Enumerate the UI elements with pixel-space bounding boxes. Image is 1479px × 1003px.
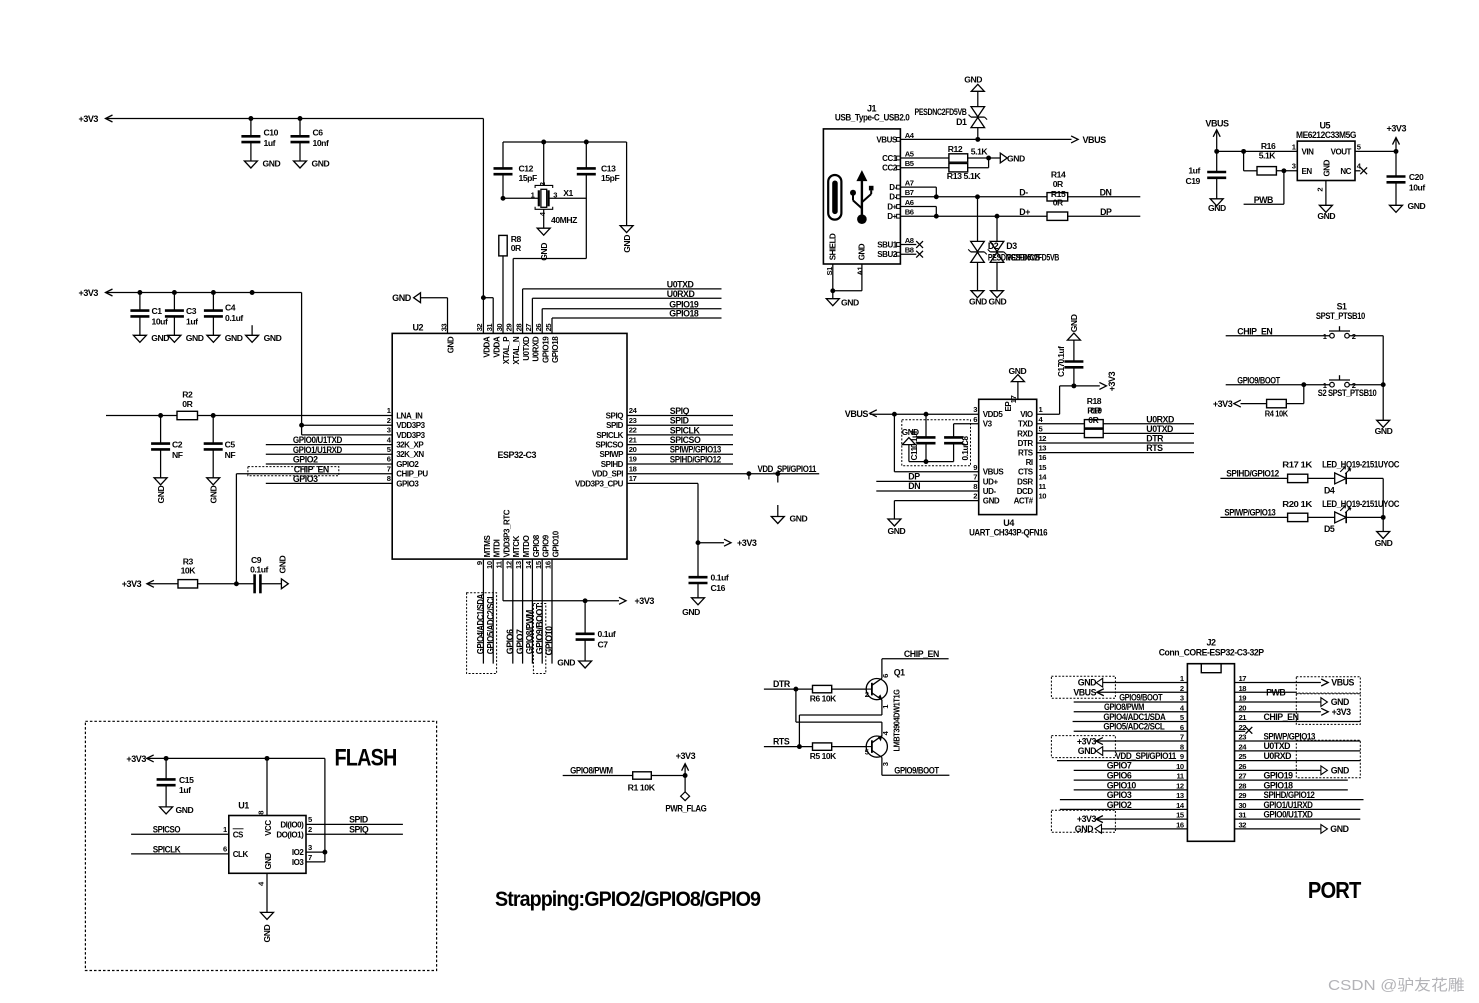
J1 SHIELD pin label — [828, 233, 837, 260]
svg-text:1uf: 1uf — [179, 785, 191, 795]
U4 pin 17 EP — [1004, 382, 1018, 412]
power label +3V3 (J2 pin20) — [1235, 707, 1352, 717]
capacitor C12 15pF — [494, 142, 537, 198]
wire +3V3 rail to U2 VDD3P3 — [106, 293, 302, 435]
svg-text:3: 3 — [881, 762, 890, 766]
USB type-c icon — [828, 175, 841, 220]
svg-text:VDD3P3_RTC: VDD3P3_RTC — [502, 509, 511, 557]
svg-text:GPIO9/BOOT: GPIO9/BOOT — [1237, 375, 1280, 385]
J2 pin 13 — [1176, 791, 1184, 800]
U2 pin 10 MTDI — [485, 539, 502, 569]
svg-text:2: 2 — [865, 690, 869, 699]
capacitor C10 1uf — [241, 119, 278, 162]
svg-text:13: 13 — [1176, 791, 1184, 800]
wire V3 to C8 — [954, 424, 979, 438]
wire VBUS down to pin9 — [894, 414, 978, 472]
capacitor C17 0.1uf — [1057, 340, 1084, 386]
U4 value label UART_CH343P-QFN16 — [969, 527, 1047, 537]
J1 pin A6 D+ — [887, 198, 913, 212]
wire LNA_IN — [106, 415, 392, 417]
svg-text:U0RXD: U0RXD — [532, 336, 541, 362]
svg-text:B5: B5 — [905, 159, 915, 168]
svg-text:C12: C12 — [519, 163, 534, 173]
svg-text:7: 7 — [1180, 733, 1184, 742]
connector J2 Conn_CORE-ESP32-C3-32P body — [1187, 664, 1234, 842]
svg-text:11: 11 — [1039, 482, 1047, 491]
wire U1 IO3 pullup — [306, 861, 325, 863]
U2 pin 21 SPICSO — [595, 435, 637, 449]
U5 pin 1 VIN — [1292, 142, 1314, 156]
svg-text:7: 7 — [387, 464, 391, 473]
J2 pin 7 — [1180, 733, 1184, 742]
junction — [158, 413, 215, 418]
wire net GPIO7 (J2 pin10) — [1074, 761, 1188, 771]
J1 pin A8 SBU1 — [877, 236, 913, 250]
svg-text:NF: NF — [172, 450, 183, 460]
U2 value label ESP32-C3 — [498, 450, 537, 460]
svg-text:19: 19 — [1239, 694, 1247, 703]
svg-text:2: 2 — [1315, 188, 1324, 192]
svg-text:GND: GND — [262, 925, 272, 943]
svg-text:SPIWP/GPIO13: SPIWP/GPIO13 — [1224, 507, 1275, 517]
svg-text:GPIO6: GPIO6 — [505, 629, 515, 654]
svg-text:VDD3P3_CPU: VDD3P3_CPU — [575, 479, 624, 488]
svg-text:ACT#: ACT# — [1014, 497, 1034, 506]
J1 SBU2 stub — [900, 251, 923, 258]
svg-text:IO3: IO3 — [292, 858, 305, 867]
svg-text:NC: NC — [1340, 167, 1351, 176]
J2 pin 28 — [1239, 781, 1247, 790]
wire net GPIO10 (J2 pin12) — [1074, 780, 1188, 790]
U4 pin 7 UD+ — [973, 472, 998, 486]
svg-text:13: 13 — [1039, 444, 1047, 453]
junction — [830, 288, 835, 293]
U2 pin 15 GPIO9 — [534, 534, 551, 569]
U2 pin 23 SPID — [606, 416, 636, 430]
J2 pin22 no-connect — [1235, 727, 1253, 734]
svg-text:GND: GND — [1075, 824, 1093, 834]
svg-text:PWB: PWB — [1266, 687, 1285, 697]
svg-text:LNA_IN: LNA_IN — [396, 411, 423, 420]
power label +3V3 (J2 pin7) — [1077, 736, 1188, 746]
resistor R8 0R — [499, 234, 522, 256]
svg-text:CLK: CLK — [233, 850, 249, 859]
U2 reference label — [413, 323, 424, 333]
power label GND (J2 pin8) — [1078, 746, 1188, 756]
svg-text:R16: R16 — [1261, 141, 1276, 151]
U2 pin 2 VDD3P3 — [387, 416, 426, 430]
diode D3 PESDNC2FD5VB — [988, 216, 1059, 291]
wire R4 branch — [1286, 385, 1304, 404]
svg-text:GPIO3: GPIO3 — [396, 479, 419, 488]
svg-text:3: 3 — [1180, 694, 1184, 703]
svg-text:12: 12 — [1176, 781, 1184, 790]
diode D1 PESDNC2FD5VB — [915, 107, 988, 140]
svg-text:GND: GND — [312, 159, 330, 169]
svg-text:6: 6 — [223, 845, 227, 854]
svg-text:GPIO2: GPIO2 — [1107, 800, 1132, 810]
wire — [832, 746, 867, 748]
svg-text:DN: DN — [1100, 188, 1112, 198]
svg-text:GPIO3: GPIO3 — [293, 474, 318, 484]
junction — [248, 116, 485, 300]
U4 pin 5 RXD — [1017, 424, 1043, 438]
svg-text:UD+: UD+ — [983, 477, 999, 486]
wire VBUS rail to VIN — [1217, 150, 1298, 152]
ground (LEDs) — [1375, 517, 1393, 548]
svg-text:2: 2 — [308, 825, 312, 834]
svg-text:U0RXD: U0RXD — [1146, 414, 1174, 424]
svg-text:SPICLK: SPICLK — [670, 425, 701, 435]
svg-text:D4: D4 — [1324, 486, 1335, 496]
J2 pin 4 — [1180, 703, 1185, 712]
svg-text:GND: GND — [264, 333, 282, 343]
wire net GPIO18 — [552, 309, 722, 334]
svg-text:PORT: PORT — [1308, 877, 1361, 903]
ground (C4) — [207, 333, 243, 343]
wire VDD3P3_RTC to +3V3 — [503, 559, 619, 601]
J1 S1 shield pin — [825, 264, 834, 291]
U5 pin 2 GND — [1315, 159, 1331, 191]
ground (C10) — [244, 159, 280, 169]
resistor R12 5.1K — [948, 144, 989, 162]
svg-text:GND: GND — [888, 526, 906, 536]
svg-text:GPIO5/ADC2/SCL: GPIO5/ADC2/SCL — [485, 593, 495, 654]
svg-text:LED_HQ19-2151UYOC: LED_HQ19-2151UYOC — [1322, 499, 1400, 509]
svg-text:6: 6 — [973, 415, 977, 424]
svg-text:2: 2 — [387, 416, 391, 425]
junction — [924, 459, 929, 464]
junction — [583, 598, 588, 603]
svg-text:24: 24 — [1239, 742, 1248, 751]
power flag +3V3 (flash) — [126, 754, 153, 764]
U2 pin 18 VDD_SPI — [592, 464, 637, 478]
capacitor C8 0.1uf — [926, 436, 970, 462]
svg-text:U0TXD: U0TXD — [1146, 424, 1173, 434]
junction — [696, 540, 701, 545]
power label GND (J2 pin16) — [1075, 824, 1188, 834]
ground (C20) — [1390, 201, 1426, 213]
wire VDD3P3_CPU to +3V3/C16 — [627, 483, 698, 577]
svg-text:13: 13 — [514, 561, 523, 569]
resistor R13 5.1K — [947, 164, 982, 181]
J2 pin 12 — [1176, 781, 1184, 790]
svg-text:0.1uf: 0.1uf — [1057, 346, 1066, 364]
wire U5 GND — [1325, 181, 1327, 206]
U2 pin 17 VDD3P3_CPU — [575, 474, 637, 488]
J2 pin 2 — [1180, 684, 1184, 693]
wire gnd rail S1/S2 — [1382, 385, 1384, 421]
junction — [934, 194, 980, 199]
wire GPIO10 / net GPIO10 — [544, 559, 554, 664]
svg-text:32: 32 — [1239, 820, 1247, 829]
op-amp U2 ESP32-C3 body — [392, 333, 627, 559]
U4 pin 16 RI — [1026, 453, 1047, 467]
svg-text:VDDA: VDDA — [483, 336, 492, 358]
wire Q1b collector to GPIO9/BOOT — [882, 757, 950, 775]
ground (floating on rail) — [246, 325, 282, 343]
U4 pin 12 DTR — [1018, 434, 1047, 448]
node D- label — [1019, 188, 1028, 198]
svg-text:GPIO9/BOOT: GPIO9/BOOT — [534, 603, 544, 654]
svg-text:CS: CS — [233, 830, 244, 839]
svg-text:SPICSO: SPICSO — [670, 435, 701, 445]
svg-text:29: 29 — [505, 324, 514, 332]
wire net DP (to U4 UD+) — [876, 471, 978, 481]
wire — [502, 256, 504, 334]
U1 pin 4 GND — [256, 852, 273, 912]
svg-text:32K_XN: 32K_XN — [396, 450, 424, 459]
svg-text:VBUS: VBUS — [876, 135, 898, 144]
svg-text:GND: GND — [151, 333, 169, 343]
capacitor C1 10uf — [130, 293, 168, 336]
ground (crystal rail) — [620, 226, 633, 253]
U2 pin 7 CHIP_PU — [387, 464, 429, 478]
svg-text:TXD: TXD — [1018, 420, 1033, 429]
node GPIO9/BOOT label (Q1) — [894, 765, 939, 775]
U2 pin 33 GND — [439, 324, 455, 354]
wire net U0TXD — [523, 280, 722, 334]
U2 pin 24 SPIQ — [606, 406, 638, 420]
svg-text:6: 6 — [387, 455, 391, 464]
U2 pin 8 GPIO3 — [387, 474, 420, 488]
svg-text:USB_Type-C_USB2.0: USB_Type-C_USB2.0 — [835, 113, 910, 123]
wire — [1241, 403, 1267, 405]
svg-text:VIO: VIO — [1020, 410, 1033, 419]
J1 GND pin label — [858, 243, 867, 260]
U1 pin 8 VCC — [256, 758, 273, 835]
wire VIO to +3V3/C17 — [1037, 386, 1100, 414]
svg-text:GPIO4/ADC1/SDA: GPIO4/ADC1/SDA — [1103, 712, 1166, 722]
power flag +3V3 (R1) — [676, 751, 696, 776]
wire net DN (to U4 UD-) — [876, 481, 978, 491]
capacitor C15 1uf — [157, 758, 194, 807]
svg-text:GND: GND — [1208, 203, 1226, 213]
svg-text:GND: GND — [1323, 159, 1332, 176]
wire net GPIO9/BOOT (J2 pin3) — [1074, 692, 1188, 702]
U2 pin 31 VDDA — [485, 323, 501, 358]
wire D- A7 — [900, 187, 936, 197]
svg-text:GND: GND — [1330, 824, 1348, 834]
U4 pin 13 RTS — [1018, 444, 1046, 458]
wire S2 to gnd rail — [1349, 384, 1383, 386]
U5 pin 4 NC — [1340, 162, 1367, 176]
J2 pin 1 — [1180, 674, 1185, 683]
svg-text:+3V3: +3V3 — [79, 114, 99, 124]
svg-text:GND: GND — [1375, 538, 1393, 548]
svg-text:B6: B6 — [905, 208, 914, 217]
power label GND (J2 pin1) — [1078, 678, 1188, 688]
U1 pin 6 CLK — [223, 845, 248, 859]
svg-text:8: 8 — [973, 482, 977, 491]
svg-text:0.1uf: 0.1uf — [711, 573, 729, 583]
svg-text:VDD3P3: VDD3P3 — [396, 431, 425, 440]
wire net SPIWP/GPIO13 — [627, 445, 733, 455]
J2 pin 21 — [1239, 713, 1248, 722]
svg-text:S2 SPST_PTSB10: S2 SPST_PTSB10 — [1318, 388, 1377, 398]
ground (crystal) — [537, 228, 550, 261]
wire GPIO1/U1RXD — [266, 445, 392, 455]
junction — [1381, 382, 1386, 387]
svg-text:B7: B7 — [905, 188, 914, 197]
svg-text:21: 21 — [629, 435, 638, 444]
resistor R19 0R (RXD series) — [1037, 429, 1104, 437]
U2 pin 9 MTMS — [475, 535, 492, 566]
ground (C1) — [133, 333, 169, 343]
U2 pin 14 GPIO8 — [524, 534, 541, 569]
svg-text:SPIQ: SPIQ — [670, 406, 690, 416]
wire Q1a collector to CHIP_EN — [882, 659, 949, 679]
svg-text:GPIO18: GPIO18 — [669, 309, 699, 319]
svg-text:R5 10K: R5 10K — [810, 751, 837, 761]
title PORT — [1308, 877, 1361, 903]
svg-text:DP: DP — [908, 471, 920, 481]
J2 pin 19 — [1239, 694, 1247, 703]
svg-text:GND: GND — [264, 852, 273, 869]
ground (CC pullaways, right-facing) — [1000, 153, 1025, 163]
svg-text:VOUT: VOUT — [1331, 147, 1352, 156]
svg-text:+3V3: +3V3 — [1332, 707, 1352, 717]
wire — [147, 583, 255, 585]
U2 pin 4 32K_XP — [387, 435, 425, 449]
resistor R6 10K — [810, 685, 837, 703]
U5 pin 5 VOUT — [1331, 142, 1362, 156]
U4 pin 14 DSR — [1017, 472, 1047, 486]
svg-text:CSDN @驴友花雕: CSDN @驴友花雕 — [1328, 977, 1465, 994]
svg-text:SPICLK: SPICLK — [153, 844, 182, 854]
svg-text:PWB: PWB — [1254, 195, 1273, 205]
svg-text:J2: J2 — [1207, 637, 1217, 647]
J2 pin 15 — [1176, 811, 1185, 820]
junction — [934, 214, 1000, 219]
J2 pin 32 — [1239, 820, 1247, 829]
wire net SPIHD/GPIO12 — [627, 454, 733, 464]
svg-text:Conn_CORE-ESP32-C3-32P: Conn_CORE-ESP32-C3-32P — [1159, 648, 1265, 658]
svg-text:SPID: SPID — [349, 814, 368, 824]
U2 pin 6 GPIO2 — [387, 455, 420, 469]
junction — [501, 196, 506, 201]
resistor R4 10K — [1265, 399, 1289, 418]
svg-text:V3: V3 — [983, 420, 993, 429]
junction — [1301, 382, 1306, 387]
ground (floating near VDD_SPI) — [771, 505, 807, 524]
U5 reference label — [1320, 120, 1331, 130]
ground (C16) — [682, 598, 704, 617]
ground (D1 top, up-facing) — [964, 74, 984, 106]
svg-text:VBUS: VBUS — [1073, 687, 1096, 697]
J2 pin 25 — [1239, 752, 1248, 761]
svg-text:15: 15 — [1176, 811, 1185, 820]
wire flash +3V3 rail — [147, 758, 325, 862]
J2 pin 10 — [1176, 762, 1184, 771]
wire CC1 — [900, 157, 949, 159]
svg-text:ME6212C33M5G: ME6212C33M5G — [1296, 130, 1357, 140]
U2 pin 12 MTCK — [504, 535, 521, 569]
ground (C11/C8 local, up-facing) — [902, 428, 926, 462]
svg-text:SPICSO: SPICSO — [153, 825, 181, 835]
svg-text:GND: GND — [1408, 201, 1426, 211]
junction — [322, 850, 327, 855]
ground (C2) — [154, 478, 167, 504]
power flag +3V3 (VDD3P3_CPU) — [698, 538, 757, 548]
svg-text:0.1uf: 0.1uf — [598, 629, 616, 639]
svg-text:GND: GND — [1069, 314, 1079, 332]
U1 pin 2 DO(IO1) — [276, 825, 312, 839]
svg-text:GND: GND — [983, 497, 1000, 506]
wire net GPIO5/ADC2/SCL (J2 pin6) — [1074, 722, 1188, 732]
wire net U0RXD (J2 pin25) — [1235, 751, 1361, 761]
svg-text:19: 19 — [629, 455, 637, 464]
node D+ label — [1019, 207, 1030, 217]
resistor R14 0R (D- series) — [1047, 170, 1068, 201]
U2 pin 13 MTDO — [514, 535, 531, 569]
U1 pin 1 CS — [223, 825, 244, 839]
power flag +3V3 (VDD3P3_RTC) — [619, 596, 654, 606]
svg-text:GND: GND — [447, 336, 456, 353]
node dashed highlight (J2 pins 7-8) — [1051, 736, 1115, 758]
svg-text:GPIO10: GPIO10 — [544, 626, 554, 656]
svg-text:GPIO9/BOOT: GPIO9/BOOT — [1119, 692, 1163, 702]
svg-text:GPIO18: GPIO18 — [1264, 780, 1294, 790]
U1 reference label — [238, 801, 249, 811]
node dashed highlight (J2 pins 1-2) — [1051, 676, 1115, 698]
svg-text:6: 6 — [1180, 723, 1184, 732]
svg-text:EP: EP — [1004, 401, 1013, 412]
svg-text:GPIO8/PWM: GPIO8/PWM — [570, 766, 613, 776]
J2 pin 27 — [1239, 772, 1247, 781]
svg-text:+3V3: +3V3 — [635, 596, 655, 606]
J2 pin 11 — [1177, 772, 1185, 781]
svg-text:GPIO6: GPIO6 — [1107, 771, 1132, 781]
svg-text:UD-: UD- — [983, 487, 997, 496]
U4 pin 4 TXD — [1018, 415, 1043, 429]
power label GND (J2 pin32) — [1235, 824, 1349, 834]
svg-text:D1: D1 — [956, 117, 967, 127]
svg-text:0R: 0R — [182, 399, 193, 409]
svg-text:7: 7 — [308, 853, 312, 862]
J2 pin 16 — [1176, 820, 1184, 829]
junction — [541, 140, 589, 145]
svg-text:VCC: VCC — [264, 820, 273, 836]
crystal X1 40MHZ — [531, 182, 578, 225]
U4 pin 3 VDD5 — [973, 405, 1003, 419]
svg-text:SPIWP/GPIO13: SPIWP/GPIO13 — [670, 445, 721, 455]
svg-text:XTAL_P: XTAL_P — [502, 336, 511, 364]
wire net GPIO1/U1RXD (J2 pin30) — [1235, 800, 1361, 810]
J1 pin B7 D- — [889, 188, 913, 202]
junction — [793, 687, 798, 692]
node FLASH dashed box — [85, 721, 436, 970]
junction — [975, 137, 980, 142]
svg-text:0R: 0R — [1053, 179, 1064, 189]
svg-text:R12: R12 — [948, 144, 963, 154]
svg-text:GND: GND — [622, 235, 632, 253]
J2 pin 24 — [1239, 742, 1248, 751]
capacitor C13 15pF — [577, 142, 620, 259]
wire net VDD_SPI/GPIO11 (J2 pin9) — [1057, 751, 1187, 761]
capacitor C3 1uf — [165, 293, 198, 336]
U1 pin 7 IO3 — [292, 853, 312, 867]
svg-text:VBUS: VBUS — [1083, 135, 1107, 145]
svg-text:10K: 10K — [181, 566, 197, 576]
U2 pin 29 XTAL_N — [505, 324, 521, 365]
svg-text:GPIO9/BOOT: GPIO9/BOOT — [894, 765, 939, 775]
resistor R17 1K — [1282, 460, 1313, 483]
uart U4 CH343P body — [979, 399, 1037, 514]
svg-text:R20 1K: R20 1K — [1282, 499, 1313, 509]
wire net DTR (Q1) — [764, 679, 813, 689]
svg-text:GND: GND — [1009, 366, 1027, 376]
